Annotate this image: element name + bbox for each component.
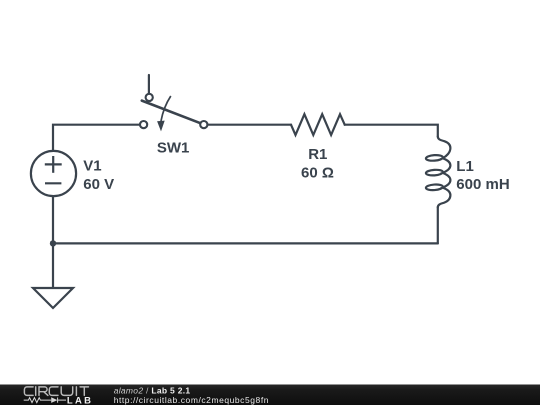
V1 body circle — [31, 151, 76, 196]
wire: node to ground stem — [52, 243, 54, 288]
V1 plus sign — [45, 163, 62, 165]
wire: resistor to top-right corner down to inductor — [345, 125, 438, 137]
inductor L1 loop 1 — [426, 155, 443, 162]
wire: switch SW1 top throw stub — [148, 75, 150, 94]
voltage source V1 — [31, 151, 76, 196]
switch SW1 left terminal (common, pin 1) — [140, 121, 147, 128]
footer logo mini circuit glyph — [24, 398, 66, 403]
wire: switch right terminal to resistor — [207, 124, 291, 126]
svg-text:60 Ω: 60 Ω — [301, 165, 334, 182]
svg-text:LAB: LAB — [67, 395, 93, 405]
wire: bottom rail — [53, 242, 438, 244]
wire: V1 top to switch left terminal — [53, 125, 140, 151]
svg-text:alamo2 / Lab 5 2.1: alamo2 / Lab 5 2.1 — [114, 385, 191, 395]
footer logo CIRCUIT (drawn letters) — [24, 387, 88, 396]
svg-text:600 mH: 600 mH — [456, 176, 509, 193]
footer bar — [0, 385, 540, 405]
switch SW1 blade — [142, 101, 203, 125]
inductor L1 loop 3 — [426, 184, 443, 191]
junction node at V1 bottom / bottom rail — [50, 240, 56, 246]
svg-text:60 V: 60 V — [83, 176, 114, 193]
svg-text:http://circuitlab.com/c2mequbc: http://circuitlab.com/c2mequbc5g8fn — [114, 395, 269, 405]
switch SW1 right terminal (pin 2) — [200, 121, 207, 128]
switch SW1 actuation arrow — [157, 96, 171, 131]
svg-text:V1: V1 — [83, 158, 101, 175]
switch SW1 — [140, 94, 207, 132]
inductor L1 loop 2 — [426, 169, 443, 176]
V1 minus sign — [45, 182, 61, 184]
ground — [33, 288, 73, 308]
svg-text:L1: L1 — [456, 158, 474, 175]
inductor L1 coil arcs — [438, 137, 451, 208]
resistor R1 — [291, 114, 345, 135]
switch SW1 top throw terminal (pin 3) — [146, 94, 153, 101]
wire: V1 bottom to node — [52, 196, 54, 243]
labels — [83, 140, 509, 193]
wire: inductor bottom to bottom rail — [437, 207, 439, 243]
svg-text:R1: R1 — [308, 146, 327, 163]
svg-text:SW1: SW1 — [157, 140, 190, 157]
